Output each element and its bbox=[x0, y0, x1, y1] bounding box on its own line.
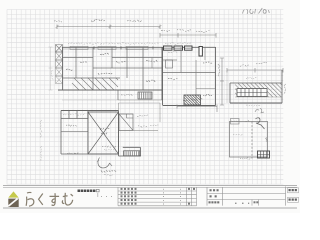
middle plan labels bbox=[165, 43, 212, 96]
title bar bottom border bbox=[3, 207, 297, 209]
left plan: stair hatch column on west edge bbox=[56, 45, 63, 84]
right upper dimension line bbox=[227, 62, 283, 103]
dotted fill line bbox=[101, 196, 112, 198]
right upper plan perimeter bbox=[230, 70, 282, 103]
logo text mu (む) bbox=[62, 193, 73, 205]
left plan hatched box south-east bbox=[138, 92, 152, 99]
bottom plan bottom wall bbox=[61, 153, 119, 155]
vertical dimension line between plans bbox=[218, 58, 224, 105]
bottom plan top wall bbox=[61, 110, 119, 112]
right lower plan perimeter bbox=[230, 122, 268, 158]
bottom plan north-east block bbox=[119, 103, 161, 130]
left plan room labels bbox=[66, 53, 157, 82]
bottom plan deck with vertical hatch bbox=[124, 151, 140, 156]
left plan perimeter walls bbox=[63, 47, 163, 100]
left plan interior partitions bbox=[62, 47, 162, 90]
middle plan interior partitions bbox=[163, 47, 216, 105]
bottom plan south-east walls bbox=[102, 111, 141, 157]
left plan south-east balcony strip bbox=[118, 90, 162, 100]
middle plan perimeter walls bbox=[163, 47, 216, 106]
right upper plan labels bbox=[246, 77, 286, 106]
logo text ku (く) bbox=[39, 194, 43, 205]
left plan veranda diagonal hatch (south) bbox=[58, 78, 162, 90]
bottom plan void square with X bbox=[88, 112, 119, 154]
dimension line D1 (top, over left plan) bbox=[54, 19, 162, 29]
middle plan hatched box (south) bbox=[184, 95, 201, 105]
handwritten note top-right bbox=[243, 8, 270, 14]
dimension line D2 (top, over middle plan) bbox=[160, 30, 216, 38]
right upper plan diagonal hatch band bbox=[235, 83, 282, 97]
left table tiny row labels bbox=[121, 188, 196, 205]
far right approval boxes bbox=[288, 188, 299, 203]
right lower plan dashed partition bbox=[252, 122, 268, 158]
graph paper grid bbox=[7, 10, 283, 185]
right table frame bbox=[207, 187, 286, 206]
middle plan top wall with dark window boxes bbox=[163, 46, 216, 56]
logo text su (す) bbox=[50, 193, 60, 205]
right lower plan labels bbox=[233, 134, 253, 159]
bottom plan stair curve bbox=[65, 153, 112, 168]
faint vertical dimension line west of left plan bbox=[49, 47, 54, 90]
black label 施工連絡計画 bbox=[78, 189, 100, 196]
dimension text 2730 below middle plan bbox=[177, 98, 217, 112]
bottom plan west wall bbox=[61, 111, 88, 155]
logo house icon body with diagonal stripe bbox=[8, 199, 18, 207]
right upper plan window strip bbox=[237, 89, 267, 97]
left table frame bbox=[118, 187, 197, 206]
bottom plan closet row (north-west) bbox=[61, 111, 88, 119]
right table row labels bbox=[209, 189, 259, 203]
logo text ra (ら) bbox=[26, 192, 34, 206]
right lower plan grid box bbox=[258, 151, 270, 158]
bottom plan area text below bbox=[101, 170, 116, 176]
left plan top wall with window symbols bbox=[62, 43, 162, 50]
right lower handwritten mark bbox=[255, 109, 264, 114]
title bar top border (double) bbox=[3, 186, 297, 188]
faint margin notes left bbox=[40, 120, 42, 161]
faint construction line under left plan bbox=[62, 99, 118, 101]
right lower plan top features bbox=[231, 118, 265, 129]
logo house icon roof bbox=[8, 191, 18, 197]
